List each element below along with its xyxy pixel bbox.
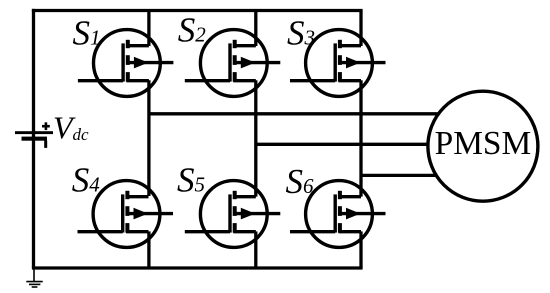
transistor S2 (185, 30, 280, 97)
battery Vdc plus sign (42, 122, 50, 130)
svg-text:S2: S2 (178, 11, 207, 50)
motor PMSM circle (428, 91, 538, 201)
svg-text:PMSM: PMSM (435, 125, 532, 162)
battery Vdc negative plate (22, 137, 48, 141)
wire left dc bus (32, 9, 35, 268)
svg-text:S4: S4 (72, 161, 101, 200)
svg-text:S5: S5 (177, 161, 205, 200)
svg-text:S3: S3 (287, 13, 315, 52)
transistor S4 (78, 181, 174, 248)
transistor S3 (290, 30, 386, 97)
wire phase A to motor (149, 112, 440, 115)
transistor S5 (185, 181, 280, 248)
wire leg1 drain of S1 (147, 11, 150, 47)
battery Vdc positive plate (15, 131, 53, 134)
svg-text:S6: S6 (286, 162, 315, 201)
battery Vdc minus tick (44, 141, 47, 148)
wire leg3 S3 source to S6 drain (359, 80, 362, 196)
wire phase C to motor (361, 174, 438, 177)
wire leg2 drain of S2 (254, 11, 257, 47)
transistor S1 (78, 30, 173, 97)
wire leg3 S6 source to bottom rail (359, 231, 362, 268)
wire leg3 drain of S3 (359, 11, 362, 47)
svg-text:Vdc: Vdc (53, 109, 89, 145)
wire leg1 S4 source to bottom rail (147, 231, 150, 268)
wire leg1 S1 source to S4 drain (147, 80, 150, 196)
svg-text:S1: S1 (73, 13, 101, 52)
wire bottom rail (32, 266, 363, 269)
wire leg2 S2 source to S5 drain (254, 80, 257, 196)
wire phase B to motor (256, 143, 430, 146)
ground symbol (26, 268, 42, 287)
wire leg2 S5 source to bottom rail (254, 231, 257, 268)
transistor S6 (290, 181, 386, 248)
wire top rail (32, 9, 363, 12)
